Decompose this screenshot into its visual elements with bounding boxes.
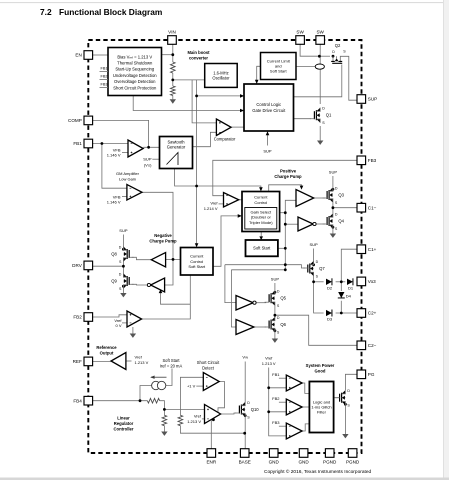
- svg-text:Control Logic: Control Logic: [256, 102, 281, 107]
- wire current limit block to control logic top: [257, 66, 261, 81]
- sawtooth generator block: [160, 137, 193, 169]
- junction gain select out: [284, 211, 287, 214]
- pin FB4: [73, 396, 92, 405]
- junction Q10 source: [244, 414, 247, 417]
- label FB3 pg: [272, 420, 280, 425]
- pin PGND: [323, 449, 337, 465]
- page right margin line: [442, 0, 445, 480]
- wire neg driver2 to Q9 gate: [132, 283, 148, 286]
- svg-text:Q5: Q5: [280, 296, 286, 301]
- svg-text:REF: REF: [73, 359, 82, 364]
- svg-text:Regulator: Regulator: [114, 421, 134, 426]
- resistor divider R lower: [171, 86, 176, 96]
- svg-text:VIN: VIN: [168, 30, 176, 35]
- oscillator block: [205, 64, 238, 88]
- wire +1V stub: [196, 385, 203, 387]
- svg-text:D: D: [347, 389, 350, 393]
- label FB2 pg: [272, 396, 280, 401]
- wire Vref stub pos error amp: [219, 203, 224, 205]
- wire PG vref rail: [269, 368, 287, 436]
- wire FB1 bias stub: [100, 71, 109, 73]
- pin SW: [296, 30, 305, 45]
- label reference output: [96, 345, 117, 356]
- svg-text:Charge Pump: Charge Pump: [274, 174, 302, 179]
- svg-text:Low Gain: Low Gain: [119, 176, 136, 181]
- svg-text:D3: D3: [327, 317, 333, 322]
- wire FB1 stub pg comp: [279, 377, 286, 379]
- junction Q6 source gnd: [274, 329, 277, 332]
- wire D3 to C2+ node: [336, 312, 357, 314]
- label SUP above Q7: [309, 242, 318, 247]
- wire FB2 bias stub: [100, 79, 109, 81]
- junction divider midpoint: [171, 79, 174, 82]
- label FB3 bias stub: [101, 82, 108, 86]
- label negative charge pump: [149, 233, 177, 244]
- svg-text:Vref: Vref: [194, 414, 202, 419]
- svg-text:FB4: FB4: [73, 398, 82, 403]
- wire D1 to Vo3 pin: [356, 281, 358, 283]
- junction VIN divider top: [171, 53, 174, 56]
- svg-text:Q3: Q3: [338, 192, 344, 197]
- svg-text:Comparator: Comparator: [214, 137, 236, 142]
- arrowhead curlim to control logic: [255, 80, 259, 84]
- svg-text:1.213 V: 1.213 V: [262, 361, 276, 366]
- diode D3: [326, 310, 333, 322]
- svg-text:Soft Start: Soft Start: [188, 264, 206, 269]
- wire buffer input stub Vref: [126, 360, 132, 362]
- svg-text:C1−: C1−: [368, 205, 377, 210]
- svg-text:7.2: 7.2: [40, 7, 52, 17]
- error amplifier A1: [128, 140, 143, 157]
- svg-text:Main boost: Main boost: [187, 50, 210, 55]
- svg-text:FB2: FB2: [73, 315, 82, 320]
- polarity marks error amp A1: [131, 144, 133, 154]
- svg-text:Output: Output: [100, 351, 114, 356]
- wire ENR riser: [211, 420, 213, 449]
- transistor Q4: [323, 212, 345, 230]
- svg-text:FB1: FB1: [101, 66, 108, 70]
- junction node A D1 D2 D4: [340, 280, 343, 283]
- wire oscillator clock bus down: [196, 96, 198, 245]
- arrowhead into gain select: [238, 214, 242, 218]
- svg-text:1.214 V: 1.214 V: [204, 206, 218, 211]
- svg-text:Overvoltage Detection: Overvoltage Detection: [114, 79, 156, 84]
- label FB1 pg: [272, 372, 280, 377]
- wire current source up stub: [166, 369, 172, 386]
- Q5 gate inverter: [236, 296, 256, 311]
- wire riser to driver2 input: [285, 223, 298, 225]
- svg-text:FB2: FB2: [101, 74, 108, 78]
- junction Q8 Q9 DRV node: [122, 265, 125, 268]
- junction pos driver bus: [284, 263, 287, 266]
- label FB1 bias stub: [101, 66, 108, 70]
- neg pump driver 2 inverting: [147, 278, 164, 292]
- label SUP above Q3: [329, 170, 338, 175]
- junction FB4 current source: [139, 399, 142, 402]
- wire FB4 resistor to divider node: [160, 401, 165, 410]
- junction Q3 C1- node: [332, 206, 335, 209]
- pin PG: [357, 370, 375, 379]
- wire driver bus2 to Q6 buffer: [231, 270, 285, 327]
- junction pg fet source: [344, 403, 347, 406]
- wire SW1 down to SW bus: [300, 44, 319, 56]
- label FB2 bias stub: [101, 74, 108, 78]
- wire pg comp1 out: [302, 383, 309, 393]
- wire divider to comparator plus: [192, 80, 216, 123]
- wire REF pin to buffer: [93, 360, 111, 362]
- junction Q8 drain SUP: [122, 248, 125, 251]
- arrowhead into neg driver2: [159, 289, 163, 293]
- label linear regulator controller: [113, 416, 133, 432]
- wire driver bus to Q5 inverter: [225, 265, 236, 303]
- wire Vref0 amp ground stub: [132, 327, 134, 334]
- svg-text:Reference: Reference: [96, 345, 117, 350]
- svg-text:SW: SW: [296, 30, 304, 35]
- svg-text:ENR: ENR: [206, 459, 216, 464]
- junction error amp out COMP: [147, 146, 150, 149]
- svg-text:1.146 V: 1.146 V: [107, 153, 121, 158]
- wire neg block feedback to driver2: [161, 292, 191, 304]
- neg pump driver 1: [151, 253, 165, 268]
- svg-text:Controller: Controller: [113, 427, 133, 432]
- pin PGND: [346, 449, 360, 465]
- svg-text:SUP: SUP: [309, 242, 318, 247]
- wire Q8 source to DRV and Q9 drain: [93, 262, 124, 274]
- section title text: [59, 7, 162, 17]
- svg-text:Soft Start: Soft Start: [162, 358, 180, 363]
- svg-text:DRV: DRV: [72, 263, 83, 268]
- polarity marks pos pump error amp: [226, 196, 228, 205]
- junction Q9 source gnd: [122, 285, 125, 288]
- current sense oval on SW line: [315, 64, 324, 69]
- resistor FB4 lower divider: [162, 415, 167, 425]
- pin COMP: [68, 116, 93, 125]
- wire node A to D1: [341, 281, 345, 283]
- ground FB4 divider: [161, 432, 167, 436]
- junction Q5 drain SUP: [274, 291, 277, 294]
- ground Q1 source: [317, 141, 323, 145]
- label main boost converter: [187, 50, 210, 60]
- wire FB2 stub pg comp: [279, 401, 286, 403]
- label Vin Q10: [242, 355, 248, 360]
- svg-text:Thermal Shutdown: Thermal Shutdown: [117, 61, 153, 66]
- arrowhead osc to control logic: [240, 94, 244, 98]
- polarity marks pg comp3: [289, 426, 291, 437]
- svg-text:Control: Control: [254, 200, 267, 205]
- wire sawtooth out to comparator minus: [193, 132, 217, 146]
- wire oscillator output down: [196, 80, 198, 96]
- label GM amplifier low gain: [116, 171, 140, 181]
- pin VIN: [168, 30, 177, 45]
- svg-text:D: D: [335, 212, 338, 216]
- junction Q4 source gnd: [332, 226, 335, 229]
- svg-text:Charge Pump: Charge Pump: [149, 238, 177, 243]
- svg-text:Q9: Q9: [111, 278, 117, 283]
- resistor short circuit divider: [178, 415, 183, 425]
- label system power good: [306, 363, 335, 374]
- svg-text:Generator: Generator: [167, 145, 186, 150]
- pin GND: [298, 449, 309, 465]
- wire PG fet source to ground: [344, 406, 346, 434]
- current limit soft start block: [261, 53, 297, 80]
- polarity marks GM amp: [130, 188, 132, 197]
- wire Q1 source to ground: [319, 126, 321, 141]
- ground below Vref0 amp: [130, 334, 136, 338]
- svg-text:D1: D1: [348, 286, 354, 291]
- svg-text:C1+: C1+: [368, 247, 377, 252]
- junction base resistor wire: [243, 432, 246, 435]
- wire FB2 to Vref0 amp: [93, 315, 127, 317]
- junction Q3 drain SUP: [332, 188, 335, 191]
- page bottom shade: [0, 478, 449, 480]
- neg pump current control soft start block: [181, 248, 214, 276]
- wire pg comp2 out: [302, 406, 309, 408]
- svg-text:SUP: SUP: [119, 228, 128, 233]
- power good comparator FB2: [286, 399, 302, 415]
- wire Q5 Q6 node to C2- route: [275, 315, 357, 345]
- svg-text:1.146 V: 1.146 V: [107, 200, 121, 205]
- junction pg rail comp2: [267, 410, 270, 413]
- svg-text:Q4: Q4: [338, 218, 344, 223]
- junction Q2 drain: [332, 55, 335, 58]
- svg-text:Copyright © 2016, Texas Instru: Copyright © 2016, Texas Instruments Inco…: [264, 468, 372, 475]
- wire SUP to Q3 drain: [332, 176, 334, 188]
- svg-text:Filter: Filter: [317, 410, 327, 415]
- wire Vref0 amp out to neg block: [142, 275, 191, 319]
- pin Vo3: [357, 277, 376, 286]
- wire neg block to driver1 input: [166, 258, 181, 260]
- wire oscillator to control logic: [197, 95, 242, 97]
- pin C1+: [357, 245, 377, 254]
- ground Q9 source: [120, 293, 126, 297]
- arrowhead clock into pos pump control: [259, 187, 263, 191]
- Q6 gate buffer: [236, 320, 254, 335]
- svg-text:FB1: FB1: [73, 141, 82, 146]
- wire FB4 line: [93, 400, 148, 402]
- pos pump soft start block: [246, 240, 278, 256]
- svg-text:FB3: FB3: [368, 158, 377, 163]
- reference output buffer: [111, 353, 126, 370]
- svg-text:D: D: [119, 245, 122, 249]
- diode D1: [347, 278, 354, 290]
- wire clock bus to positive pump control: [197, 186, 261, 188]
- wire sawtooth bottom to clock bus: [175, 169, 197, 187]
- wire Q3 source to C1- and Q4 drain: [333, 203, 357, 214]
- pin C2+: [357, 309, 377, 318]
- polarity marks short circuit comparator: [206, 377, 208, 387]
- pin GND: [269, 449, 280, 465]
- junction FB4 divider: [163, 408, 166, 411]
- svg-text:COMP: COMP: [68, 118, 82, 123]
- wire bias block to control logic: [133, 96, 241, 111]
- wire pg comp3 out: [302, 424, 309, 431]
- pin EN: [75, 51, 92, 60]
- diode D2: [326, 278, 333, 290]
- pin BASE: [239, 449, 251, 465]
- svg-text:Q8: Q8: [111, 251, 117, 256]
- wire error amp out to sawtooth block: [143, 146, 159, 148]
- polarity marks comparator: [219, 122, 221, 132]
- transistor Q10: [235, 401, 259, 419]
- svg-text:PGND: PGND: [323, 459, 337, 464]
- pin DRV: [72, 261, 92, 270]
- pin ENR: [206, 449, 216, 465]
- svg-text:Functional Block Diagram: Functional Block Diagram: [59, 7, 162, 17]
- svg-text:FB2: FB2: [272, 396, 280, 401]
- wire PG fet drain to PG pin: [345, 374, 357, 390]
- wire SUP to Q8 drain: [122, 235, 124, 247]
- svg-text:PG: PG: [368, 372, 375, 377]
- bias and protection block: [108, 48, 162, 96]
- pos pump driver 1: [296, 190, 314, 207]
- wire control logic SUP stub: [267, 134, 269, 146]
- label Vref 0V: [114, 318, 122, 328]
- polarity marks pg comp2: [289, 402, 291, 413]
- junction Q7 source node: [312, 280, 315, 283]
- svg-text:SUP: SUP: [143, 157, 152, 162]
- label SUP above Q8: [119, 228, 128, 233]
- short circuit detect comparator: [203, 373, 219, 391]
- label SUP under control logic: [263, 149, 272, 154]
- pin SUP: [357, 95, 377, 104]
- label VFB 1.146V amp2: [107, 195, 121, 205]
- junction SW bus: [318, 55, 321, 58]
- label positive charge pump: [274, 169, 302, 180]
- pin C1−: [357, 203, 377, 212]
- wire GM amp out down to neg pump drivers: [142, 192, 173, 259]
- wire Q9 source to ground: [122, 289, 124, 294]
- wire glitch filter to PG fet gate: [334, 397, 339, 399]
- svg-text:Q2: Q2: [335, 43, 341, 48]
- wire Q2 source to SUP pin: [340, 56, 357, 100]
- PWM comparator: [216, 119, 231, 136]
- label Vref 1.213V ref buffer: [135, 355, 149, 365]
- arrowhead SUP into control logic: [266, 131, 270, 135]
- GM amplifier A2: [127, 185, 142, 201]
- pin FB3: [357, 156, 377, 165]
- wire comparator out to control logic: [231, 126, 244, 128]
- wire divider bottom to ground: [172, 96, 174, 100]
- svg-text:Tripler Mode): Tripler Mode): [249, 220, 273, 225]
- svg-text:FB3: FB3: [101, 82, 108, 86]
- label VFB 1.146V amp1: [107, 148, 121, 158]
- wire D2 to node A: [336, 281, 342, 283]
- arrowhead into pos driver1: [300, 186, 304, 190]
- wire COMP pin to error amp output: [93, 120, 149, 147]
- wire current source to FB4 node: [140, 386, 152, 401]
- linear regulator error amp: [205, 405, 221, 424]
- wire node A through D4: [340, 282, 342, 313]
- svg-text:converter: converter: [189, 55, 208, 60]
- wire Q7 source down: [313, 276, 315, 282]
- pos pump driver 2 inverting: [298, 217, 316, 231]
- wire control logic to Q2 gate: [294, 65, 342, 97]
- wire driver input to driver2: [165, 259, 173, 285]
- svg-text:BASE: BASE: [239, 459, 251, 464]
- svg-text:Q10: Q10: [251, 407, 260, 412]
- transistor Q9: [111, 272, 133, 290]
- svg-text:Q7: Q7: [319, 266, 325, 271]
- page right margin shade: [444, 0, 449, 480]
- svg-text:Positive: Positive: [280, 169, 297, 174]
- svg-text:Linear: Linear: [117, 416, 130, 421]
- wire control logic to Q1 gate: [294, 118, 311, 120]
- wire soft start output to driver bus: [278, 247, 285, 249]
- svg-text:SW: SW: [316, 30, 324, 35]
- copyright: [264, 468, 372, 475]
- wire neg driver1 to Q8 gate: [132, 257, 152, 259]
- section title 7.2 Functional Block Diagram: [40, 7, 52, 17]
- ground below VIN divider: [170, 99, 176, 103]
- polarity marks Vref0 amp: [130, 314, 132, 323]
- wire FB1 to error amp input: [93, 143, 128, 145]
- wire gain select output to riser: [278, 212, 285, 214]
- svg-text:Undervoltage Detection: Undervoltage Detection: [113, 73, 157, 78]
- pin REF: [73, 357, 93, 366]
- wire divider mid to oscillator: [173, 73, 205, 86]
- wire soft start block riser: [260, 232, 262, 238]
- pin FB2: [73, 313, 92, 322]
- wire C1+ down to node A: [341, 249, 357, 282]
- svg-text:SUP: SUP: [368, 97, 377, 102]
- wire FB3 to pos error amp: [213, 160, 357, 195]
- junction soft start output: [284, 247, 287, 250]
- power good comparator FB1: [286, 375, 302, 391]
- wire gain select input riser: [213, 216, 238, 266]
- wire Q4 source to ground: [332, 229, 334, 234]
- wire pos error amp to current control block: [239, 199, 242, 201]
- junction Q7 drain SUP: [312, 263, 315, 266]
- wire driver1 input riser: [285, 200, 296, 269]
- wire Vref stub linreg: [202, 418, 205, 420]
- svg-text:Q1: Q1: [326, 113, 332, 118]
- wire Q6 source to ground: [274, 332, 276, 339]
- wire rail to comp2 minus: [269, 411, 287, 413]
- label Vref 1.213V linreg: [187, 414, 202, 424]
- wire current limit to sense oval: [296, 66, 315, 68]
- wire buffer to Q6 gate: [254, 326, 266, 328]
- label Vref 1.214V: [204, 201, 219, 212]
- svg-text:SUP: SUP: [271, 277, 280, 282]
- svg-text:Iref = 20 mA: Iref = 20 mA: [160, 364, 183, 369]
- transistor Q6: [265, 316, 287, 334]
- wire Vin to Q10 drain: [244, 362, 246, 403]
- resistor divider R upper: [171, 62, 176, 73]
- FB2 error amp Vref 0V: [127, 311, 142, 327]
- wire Vref0 stub: [122, 322, 127, 324]
- transistor Q8: [111, 245, 133, 263]
- wire SW bus to Q2 drain: [319, 55, 330, 57]
- svg-text:(VO): (VO): [144, 163, 152, 168]
- wire Q7 node to D2: [314, 281, 324, 283]
- label soft start iref: [160, 358, 183, 369]
- wire FB3 bias stub: [100, 87, 109, 89]
- wire sc detect out wrap: [218, 382, 225, 414]
- wire driver bus horizontal: [225, 265, 305, 268]
- wire pos driver1 to Q3 gate: [314, 197, 326, 199]
- wire pos driver1 feed: [269, 185, 302, 192]
- junction clock bus split: [195, 185, 198, 188]
- wire VFB stub GM amp: [122, 195, 127, 197]
- svg-text:1.213 V: 1.213 V: [135, 360, 149, 365]
- svg-text:+1 V: +1 V: [187, 383, 196, 388]
- wire FB1 riser to GM amp input: [102, 144, 127, 189]
- polarity marks pg comp1: [289, 378, 291, 389]
- wire pos driver2 to Q4 gate: [315, 223, 325, 225]
- svg-text:Start-Up Sequencing: Start-Up Sequencing: [115, 67, 155, 72]
- wire divider node to linreg amp: [164, 408, 204, 410]
- page top hairline: [0, 1, 443, 4]
